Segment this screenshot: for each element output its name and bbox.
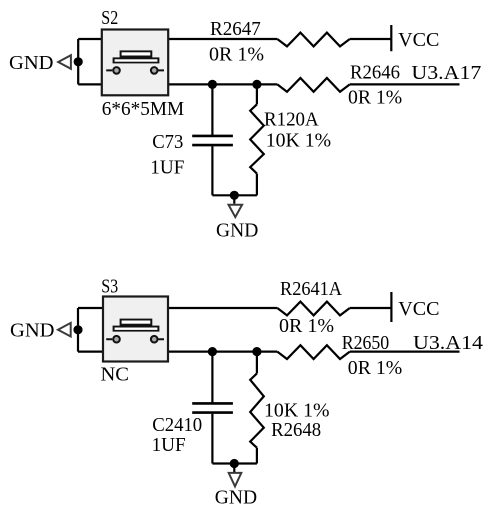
svg-text:0R 1%: 0R 1% xyxy=(279,315,334,337)
svg-text:R2650: R2650 xyxy=(342,332,390,354)
svg-text:R2647: R2647 xyxy=(210,18,261,40)
svg-text:C2410: C2410 xyxy=(152,414,202,436)
svg-text:NC: NC xyxy=(101,363,130,385)
svg-text:S3: S3 xyxy=(101,275,118,297)
svg-text:VCC: VCC xyxy=(398,29,439,51)
svg-text:R2648: R2648 xyxy=(271,419,321,441)
svg-text:10K 1%: 10K 1% xyxy=(266,130,331,152)
svg-text:0R 1%: 0R 1% xyxy=(348,87,402,109)
svg-text:1UF: 1UF xyxy=(152,434,186,456)
svg-text:U3.A17: U3.A17 xyxy=(411,62,481,84)
svg-text:GND: GND xyxy=(10,320,55,342)
svg-text:VCC: VCC xyxy=(398,298,439,320)
svg-text:S2: S2 xyxy=(101,7,118,29)
svg-text:6*6*5MM: 6*6*5MM xyxy=(102,98,184,120)
svg-text:0R 1%: 0R 1% xyxy=(348,357,402,379)
svg-text:R2646: R2646 xyxy=(350,62,400,84)
svg-text:GND: GND xyxy=(215,486,257,508)
svg-text:R2641A: R2641A xyxy=(280,278,342,300)
svg-text:U3.A14: U3.A14 xyxy=(413,332,483,354)
svg-text:0R 1%: 0R 1% xyxy=(209,43,264,65)
svg-text:R120A: R120A xyxy=(264,109,319,131)
svg-text:1UF: 1UF xyxy=(150,156,184,178)
svg-text:GND: GND xyxy=(9,52,54,74)
svg-text:C73: C73 xyxy=(152,131,183,153)
svg-text:GND: GND xyxy=(216,220,258,242)
